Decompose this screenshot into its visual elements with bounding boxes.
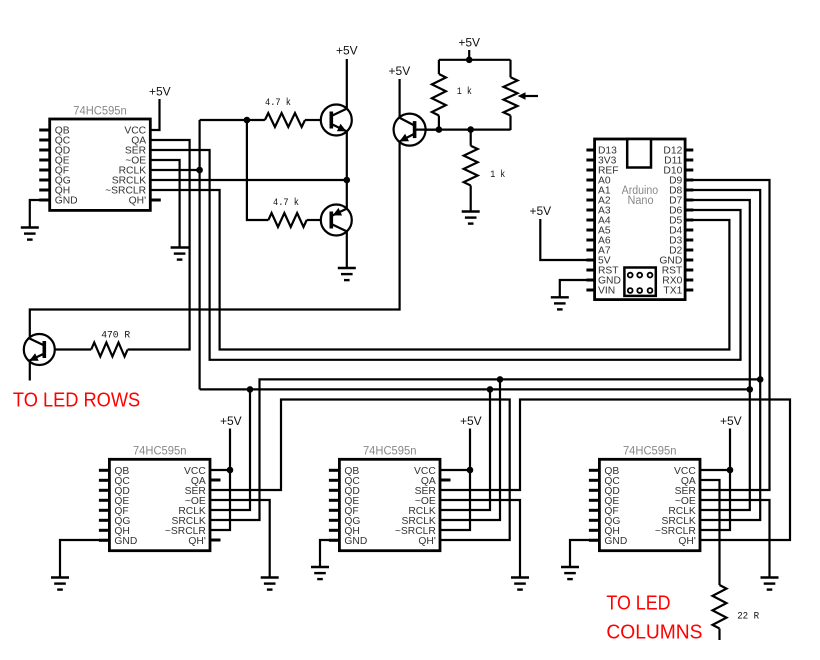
U3 pin label QD	[344, 486, 359, 497]
U1 pin label SRCLK	[112, 176, 146, 187]
power +5V label (U3)	[460, 414, 482, 428]
power +5V label (U2)	[220, 414, 242, 428]
svg-text:Nano: Nano	[628, 195, 654, 207]
resistor R1 4.7k body	[265, 113, 305, 127]
svg-text:1 k: 1 k	[457, 86, 472, 98]
svg-text:470 R: 470 R	[101, 330, 130, 341]
U2 QH' stub	[210, 539, 221, 542]
U4 pin label QC	[604, 476, 620, 487]
resistor R5 22R body	[713, 585, 727, 629]
U1 pin stub QC	[39, 139, 50, 142]
svg-text:+5V: +5V	[336, 44, 358, 58]
U4 pin label QF	[604, 506, 618, 517]
U4 pin stub QF	[589, 509, 600, 512]
svg-text:GND: GND	[344, 536, 367, 547]
U4 pin stub QG	[589, 519, 600, 522]
U2 pin stub GND	[99, 539, 110, 542]
U2 pin label ~OE	[185, 496, 206, 507]
U2 pin label SER	[185, 486, 206, 497]
junction U2 VCC	[227, 467, 234, 474]
potentiometer RV1 body	[504, 77, 518, 115]
transistor Q4	[24, 334, 55, 365]
U3 pin stub QE	[329, 499, 340, 502]
svg-text:+5V: +5V	[460, 414, 482, 428]
junction SRCLK-D8	[757, 376, 764, 383]
wire base-net vertical x=199.6	[199, 120, 201, 389]
label R3a 1 k	[457, 86, 472, 98]
U1 pin label ~OE	[125, 156, 146, 167]
wire +5V to U3 VCC/~SRCLR	[440, 429, 470, 531]
Arduino USB connector	[627, 139, 651, 168]
svg-text:GND: GND	[604, 536, 627, 547]
wire Arduino GND to ground	[560, 280, 595, 297]
U2 pin stub QH	[99, 529, 110, 532]
svg-text:+5V: +5V	[220, 414, 242, 428]
resistor R2 4.7k body	[268, 213, 306, 227]
svg-text:74HC595n: 74HC595n	[623, 446, 677, 458]
U1 pin label SER	[125, 146, 146, 157]
wire U1 RCLK stub	[150, 169, 199, 171]
U4 pin label QB	[604, 466, 619, 477]
U3 pin stub QC	[329, 479, 340, 482]
U2 pin label QG	[114, 516, 130, 527]
power +5V label (U1 VCC)	[149, 84, 171, 98]
power +5V label (Q3)	[389, 64, 411, 78]
U1 pin label QF	[55, 166, 69, 177]
shift register U1 body	[50, 119, 151, 210]
Arduino label	[622, 185, 659, 207]
label U3 74HC595n	[363, 446, 417, 458]
svg-text:QH': QH'	[188, 536, 205, 547]
U4 pin label ~SRCLR	[655, 526, 696, 537]
svg-text:QH': QH'	[678, 536, 695, 547]
U3 pin label RCLK	[408, 506, 436, 517]
label U2 74HC595n	[133, 446, 187, 458]
wire U3 VCC stub	[440, 469, 470, 471]
U2 pin label GND	[114, 536, 137, 547]
U1 pin label QA	[131, 136, 146, 147]
svg-text:74HC595n: 74HC595n	[73, 105, 127, 117]
wire R3a to base rail	[438, 116, 440, 131]
wire Arduino D8 to U4 SRCLK	[685, 190, 760, 520]
Arduino pin stubs	[586, 150, 693, 290]
svg-text:74HC595n: 74HC595n	[363, 446, 417, 458]
svg-text:GND: GND	[114, 536, 137, 547]
wire R5 open end	[718, 629, 720, 641]
wire +5V to U4 VCC/~SRCLR	[700, 429, 730, 531]
U3 pin label QH	[344, 526, 359, 537]
ground (Arduino)	[551, 297, 569, 309]
wire +5V to Q1 collector	[346, 59, 348, 109]
ground (Q2)	[338, 268, 356, 280]
U4 pin stub QE	[589, 499, 600, 502]
wire R1 to Q1 base	[305, 119, 321, 121]
U3 pin label ~SRCLR	[395, 526, 436, 537]
svg-text:GND: GND	[55, 196, 78, 207]
junction SRCLK-U3	[497, 376, 504, 383]
U4 pin label QH'	[678, 536, 695, 547]
power +5V label (divider)	[458, 36, 480, 50]
U2 pin label QH	[114, 526, 129, 537]
U3 pin label SER	[415, 486, 436, 497]
U1 pin label QH	[55, 186, 70, 197]
U2 pin label ~SRCLR	[165, 526, 206, 537]
U1 pin stub QH	[39, 189, 50, 192]
svg-text:VIN: VIN	[598, 286, 615, 297]
wire U1 ~OE down	[150, 160, 179, 248]
U2 pin label QD	[114, 486, 129, 497]
U1 pin stub QB	[39, 129, 50, 132]
Arduino right pin labels	[659, 146, 683, 297]
junction SRCLK node	[344, 177, 351, 184]
wire U2 ~OE to ground	[210, 500, 270, 578]
U1 pin stub GND	[39, 199, 50, 202]
wire +5V to Q3	[399, 79, 401, 118]
wire U1 QA to node	[128, 140, 190, 350]
U3 pin stub QB	[329, 469, 340, 472]
U1 pin label VCC	[124, 126, 146, 137]
U2 pin stub QC	[99, 479, 110, 482]
svg-text:COLUMNS: COLUMNS	[606, 620, 702, 643]
svg-text:+5V: +5V	[389, 64, 411, 78]
U2 pin label RCLK	[178, 506, 206, 517]
label TO LED ROWS	[13, 389, 140, 412]
U4 pin label QA	[681, 476, 696, 487]
U2 pin label QF	[114, 506, 128, 517]
junction RCLK-U2	[247, 386, 254, 393]
junction divider top	[466, 57, 473, 64]
U1 pin label QD	[55, 146, 70, 157]
U3 pin label GND	[344, 536, 367, 547]
label R4 470 R	[101, 330, 130, 341]
U3 pin label QB	[344, 466, 359, 477]
label R5 22 R	[737, 612, 759, 623]
power +5V label (U4)	[720, 414, 742, 428]
ground (U3 GND)	[311, 567, 329, 579]
wire SRCLK bus y=379.4	[210, 379, 760, 520]
U2 pin stub QB	[99, 469, 110, 472]
U4 pin label SRCLK	[661, 516, 695, 527]
U1 pin label GND	[55, 196, 78, 207]
junction base rail R3a	[436, 126, 443, 133]
label R1 4.7 k	[265, 97, 291, 109]
U3 pin label QA	[421, 476, 436, 487]
wire U2 VCC stub	[210, 469, 230, 471]
wire Q1 emitter to node	[346, 131, 348, 208]
U3 pin label VCC	[414, 466, 436, 477]
wire to R3b	[470, 130, 472, 146]
U4 pin label RCLK	[668, 506, 696, 517]
potentiometer RV1 wiper arrow	[518, 92, 538, 100]
U2 pin stub QE	[99, 499, 110, 502]
ground (R3b)	[462, 212, 480, 224]
transistor Q1	[321, 105, 352, 136]
U4 pin label GND	[604, 536, 627, 547]
wire to pot	[509, 60, 511, 78]
U1 pin stub QH'	[150, 199, 161, 202]
U3 pin stub QH	[329, 529, 340, 532]
wire U4 ~OE to ground	[700, 500, 770, 578]
junction RCLK/base-net	[196, 167, 203, 174]
U3 pin label ~OE	[415, 496, 436, 507]
U1 pin label QG	[55, 176, 71, 187]
transistor Q2	[321, 205, 352, 236]
U3 QA stub	[440, 479, 451, 482]
U2 pin label VCC	[184, 466, 206, 477]
wire R2 to Q2 base	[307, 219, 321, 221]
U3 pin label QE	[344, 496, 359, 507]
U4 pin label QD	[604, 486, 619, 497]
U4 pin stub QB	[589, 469, 600, 472]
Arduino ICSP header	[624, 268, 655, 296]
svg-text:4.7 k: 4.7 k	[265, 97, 291, 109]
U1 pin stub QD	[39, 149, 50, 152]
U4 pin stub QC	[589, 479, 600, 482]
U3 pin label QG	[344, 516, 360, 527]
resistor R3b 1k body	[464, 146, 478, 186]
resistor R3a 1k body	[432, 74, 446, 116]
ground (U3 ~OE)	[511, 578, 529, 590]
U2 QA stub	[210, 479, 221, 482]
junction RCLK-U3	[487, 386, 494, 393]
U3 pin label QH'	[418, 536, 435, 547]
svg-text:+5V: +5V	[529, 204, 551, 218]
junction U4 VCC	[727, 467, 734, 474]
U4 pin label QH	[604, 526, 619, 537]
U1 pin label QE	[55, 156, 70, 167]
U4 pin label QG	[604, 516, 620, 527]
U4 pin stub QD	[589, 489, 600, 492]
resistor R4 470R body	[91, 343, 127, 357]
U1 pin stub QF	[39, 169, 50, 172]
U2 pin label QB	[114, 466, 129, 477]
wire Q2 collector to ground	[346, 231, 348, 268]
ground (U4 ~OE)	[761, 578, 779, 590]
label U1 74HC595n	[73, 105, 127, 117]
U3 pin stub QF	[329, 509, 340, 512]
svg-text:TX1: TX1	[663, 286, 682, 297]
wire Q4 emitter open	[29, 362, 31, 381]
U2 pin label QE	[114, 496, 129, 507]
junction RCLK-D7	[747, 386, 754, 393]
U3 pin stub QG	[329, 519, 340, 522]
power +5V label (Arduino)	[529, 204, 551, 218]
U4 pin label VCC	[674, 466, 696, 477]
wire U3 GND to ground	[320, 540, 339, 567]
U4 pin stub GND	[589, 539, 600, 542]
wire SRCLK to U3	[440, 379, 500, 520]
wire Arduino D7 to U4 RCLK	[685, 200, 750, 510]
label R2 4.7 k	[273, 197, 299, 209]
label U4 74HC595n	[623, 446, 677, 458]
svg-text:22 R: 22 R	[737, 612, 759, 623]
U2 pin label SRCLK	[171, 516, 205, 527]
U3 pin label SRCLK	[401, 516, 435, 527]
svg-text:+5V: +5V	[149, 84, 171, 98]
svg-text:4.7 k: 4.7 k	[273, 197, 299, 209]
wire U1 GND to ground	[30, 200, 50, 228]
svg-text:+5V: +5V	[720, 414, 742, 428]
wire to R3a	[438, 60, 440, 74]
U3 pin label QF	[344, 506, 358, 517]
wire U4 VCC stub	[700, 469, 730, 471]
U2 pin label QA	[191, 476, 206, 487]
wire base rail y=130	[426, 129, 510, 131]
wire U3 QH' to U2 SER	[210, 400, 510, 541]
svg-text:74HC595n: 74HC595n	[133, 446, 187, 458]
wire R3b to ground	[470, 186, 472, 212]
U1 pin label QH'	[129, 196, 146, 207]
U2 pin stub QG	[99, 519, 110, 522]
U2 pin stub QF	[99, 509, 110, 512]
wire R4 to Q4 base	[55, 348, 91, 350]
wire divider top rail	[439, 59, 511, 61]
wire pot to base rail	[509, 116, 511, 131]
junction base rail R3b	[467, 126, 474, 133]
U1 pin label ~SRCLR	[105, 186, 146, 197]
svg-text:QH': QH'	[418, 536, 435, 547]
transistor Q3	[394, 114, 426, 146]
U1 pin stub QE	[39, 159, 50, 162]
U1 pin stub QG	[39, 179, 50, 182]
svg-text:+5V: +5V	[458, 36, 480, 50]
wire Q3 base to node	[415, 129, 439, 131]
junction base-net split	[244, 117, 251, 124]
U2 pin label QH'	[188, 536, 205, 547]
Arduino ICSP pins	[628, 273, 653, 293]
label R3b 1 k	[490, 169, 505, 181]
shift register U4 body	[599, 459, 700, 550]
shift register U2 body	[109, 459, 210, 550]
shift register U3 body	[339, 459, 440, 550]
U3 pin stub QD	[329, 489, 340, 492]
U1 pin label RCLK	[119, 166, 147, 177]
svg-text:1 k: 1 k	[490, 169, 505, 181]
label TO LED COLUMNS	[606, 591, 702, 643]
svg-text:TO LED ROWS: TO LED ROWS	[13, 389, 140, 412]
svg-text:QH': QH'	[129, 196, 146, 207]
wire base-net down to R2	[247, 120, 269, 220]
Arduino left pin labels	[598, 146, 621, 297]
U3 pin stub GND	[329, 539, 340, 542]
wire U4 GND to ground	[570, 540, 599, 567]
ground (U2 ~OE)	[261, 578, 279, 590]
wire U4 QA to R5	[700, 480, 720, 585]
U3 pin label QC	[344, 476, 360, 487]
wire U2 GND to ground	[60, 540, 109, 578]
wire +5V to U1 VCC	[150, 99, 159, 130]
U2 pin stub QD	[99, 489, 110, 492]
power +5V label (Q1)	[336, 44, 358, 58]
wire +5V to divider	[468, 50, 470, 60]
U2 pin label QC	[114, 476, 130, 487]
wire U4 QH' to U3 SER	[440, 400, 790, 541]
U4 pin label SER	[675, 486, 696, 497]
wire to R1	[247, 119, 265, 121]
U1 pin label QB	[55, 126, 70, 137]
Arduino Nano body	[595, 139, 686, 300]
U4 pin label QE	[604, 496, 619, 507]
wire Q3 emitter down to row driver	[30, 141, 400, 337]
wire +5V to Arduino 5V	[540, 219, 594, 260]
wire base-net top to R1	[200, 119, 247, 121]
U1 pin label QC	[55, 136, 71, 147]
wire U1 SER to Arduino D6	[150, 150, 740, 360]
ground (U1 ~OE)	[171, 248, 189, 260]
svg-text:TO LED: TO LED	[606, 591, 670, 614]
ground (U4 GND)	[561, 567, 579, 579]
U4 pin label ~OE	[675, 496, 696, 507]
wire RCLK bus y=389.4	[200, 388, 750, 390]
wire U1 ~SRCLR to Arduino D5	[150, 190, 729, 350]
wire RCLK to U2	[210, 389, 250, 510]
wire U3 ~OE to ground	[440, 500, 520, 578]
junction U3 VCC	[467, 467, 474, 474]
wire U1 SRCLK to Q1/Q2 node	[150, 179, 346, 181]
ground (U1 GND)	[21, 228, 39, 240]
wire Arduino D9 to U4 SER	[685, 180, 769, 490]
U4 pin stub QH	[589, 529, 600, 532]
ground (U2 GND)	[51, 578, 69, 590]
wire +5V to U2 VCC/~SRCLR	[210, 429, 230, 531]
wire RCLK to U3	[440, 389, 490, 510]
